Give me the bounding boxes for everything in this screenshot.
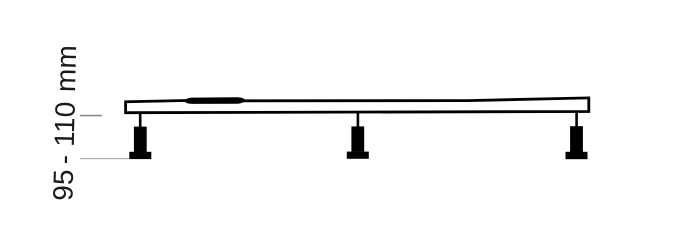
support rail (profile bar) (126, 98, 589, 113)
foot F2 body (351, 126, 364, 151)
dimension label "95 - 110 mm" (47, 45, 82, 202)
weld seam pad on top of rail (184, 97, 245, 104)
foot F1 body (134, 127, 147, 152)
foot F3 base plate (566, 152, 588, 159)
foot F3 body (570, 126, 583, 152)
leader line upper (underside of rail) (80, 115, 102, 117)
svg-text:95 - 110 mm: 95 - 110 mm (47, 45, 82, 202)
foot F3 stem (575, 110, 578, 128)
foot F2 base plate (347, 152, 369, 159)
foot F1 base plate (129, 152, 151, 159)
foot F2 stem (357, 112, 360, 129)
foot F1 stem (139, 112, 142, 129)
leader line lower (floor level) (80, 158, 129, 160)
